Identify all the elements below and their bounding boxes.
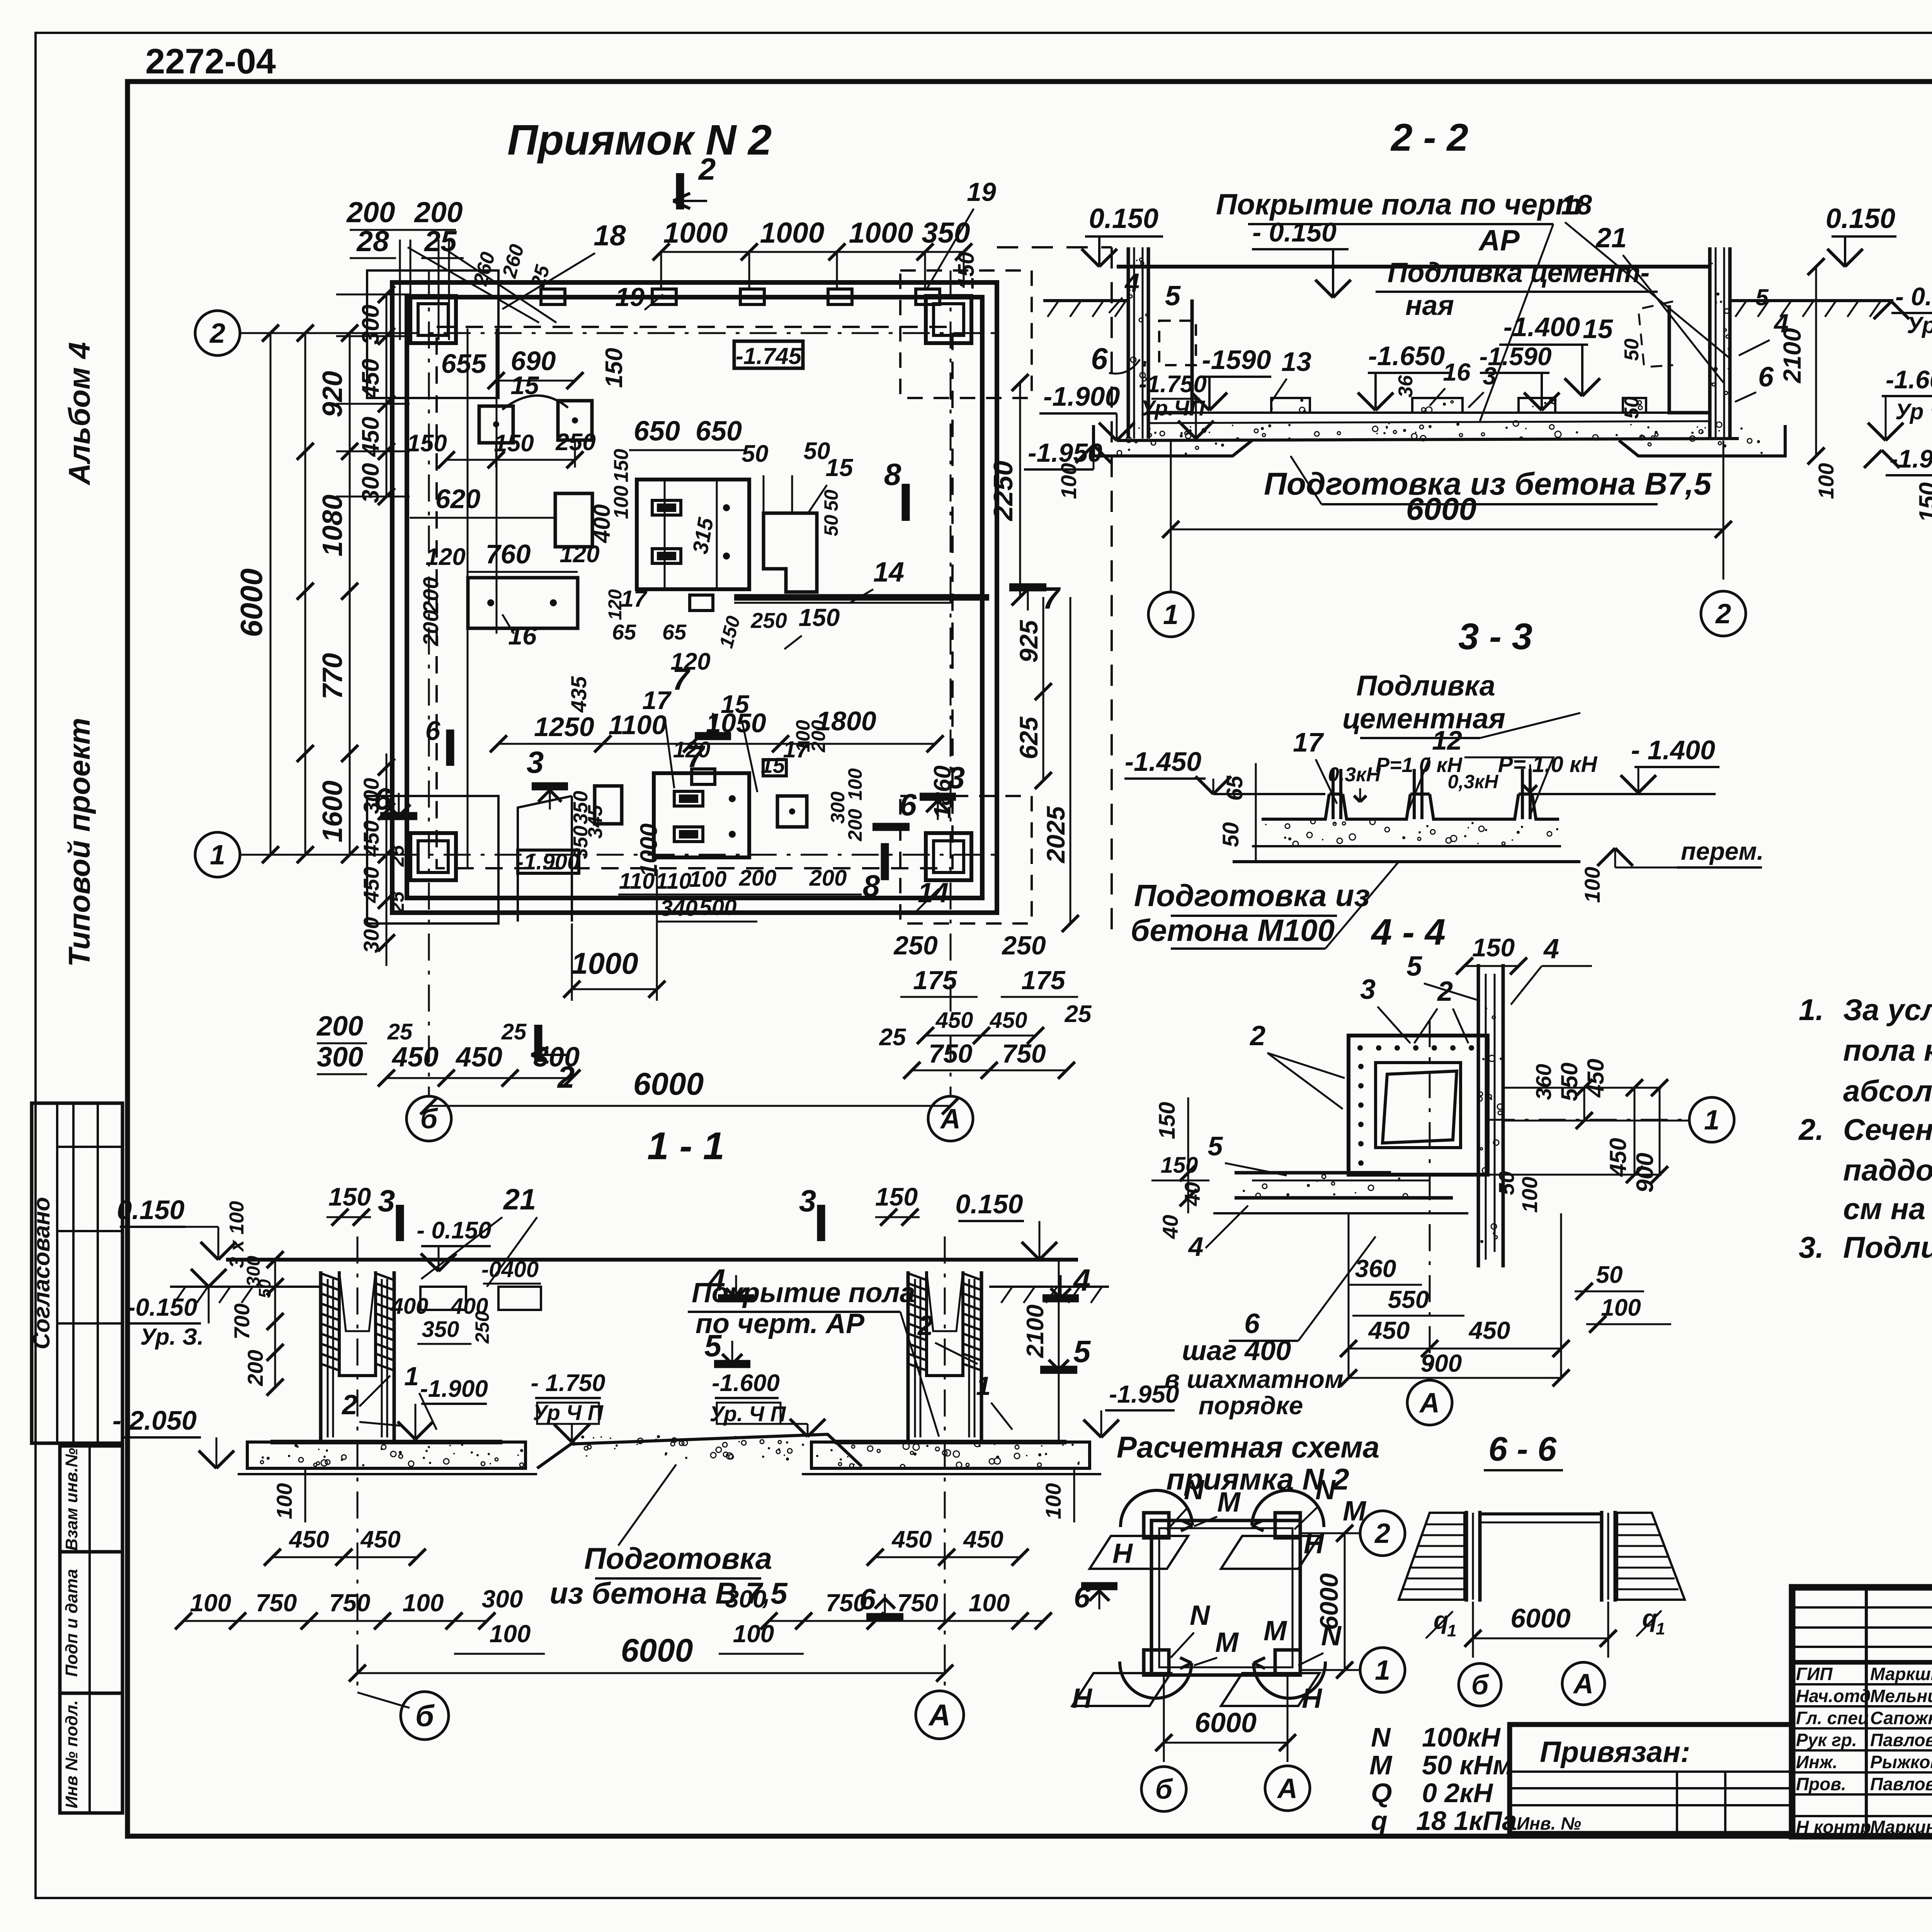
svg-text:Подливка: Подливка (1356, 670, 1495, 702)
design scheme corner nodes (1144, 1513, 1169, 1538)
svg-text:цементная: цементная (1342, 702, 1505, 735)
svg-text:АР: АР (1478, 224, 1520, 257)
svg-text:6: 6 (859, 1583, 876, 1616)
svg-text:Рук гр.: Рук гр. (1796, 1730, 1857, 1750)
svg-text:690: 690 (511, 346, 556, 376)
plan axis circle 2 (195, 311, 240, 355)
svg-text:250: 250 (893, 931, 938, 960)
svg-text:М: М (1217, 1487, 1241, 1518)
svg-text:50: 50 (1494, 1171, 1519, 1195)
svg-text:-1590: -1590 (1202, 345, 1271, 375)
plan section flags (676, 173, 684, 209)
plan corner footing outlines (367, 270, 498, 398)
design scheme section 6 flag (1081, 1582, 1117, 1590)
svg-text:перем.: перем. (1681, 837, 1764, 865)
svg-text:1: 1 (1656, 1619, 1665, 1638)
svg-text:13: 13 (1281, 347, 1311, 377)
svg-text:200: 200 (844, 809, 866, 842)
svg-text:18 1кПа: 18 1кПа (1416, 1806, 1517, 1836)
svg-text:б: б (415, 1699, 435, 1733)
svg-text:Н: Н (1072, 1683, 1093, 1714)
svg-text:0.150: 0.150 (1826, 203, 1895, 234)
svg-text:Инж.: Инж. (1796, 1752, 1838, 1772)
svg-text:300: 300 (357, 304, 384, 344)
plan corner column TR (926, 296, 971, 343)
section 4-4 wall vertical (1477, 964, 1480, 1267)
svg-text:Р= 1.0 кН: Р= 1.0 кН (1498, 752, 1598, 777)
svg-text:Ур 3.: Ур 3. (1907, 312, 1932, 338)
svg-text:2: 2 (1249, 1020, 1265, 1051)
svg-text:12: 12 (1432, 725, 1462, 755)
svg-text:150: 150 (875, 1182, 918, 1211)
svg-text:q: q (1371, 1806, 1388, 1836)
svg-text:- 1.400: - 1.400 (1631, 735, 1715, 765)
svg-text:100: 100 (1814, 463, 1838, 499)
svg-text:2: 2 (1437, 976, 1453, 1007)
svg-text:Подготовка из бетона В7,5: Подготовка из бетона В7,5 (1264, 466, 1712, 502)
section 2-2 pit bottom slab (1148, 412, 1710, 414)
svg-text:Подливка из цементного: Подливка из цементного раствора М 200 (1843, 1230, 1932, 1264)
section 4-4 corner box (1349, 1036, 1488, 1175)
plan axis lines (240, 332, 1005, 334)
svg-text:Сечения 6-6 ÷ 8- 8, специ: Сечения 6-6 ÷ 8- 8, спецификацию армиров… (1843, 1112, 1932, 1146)
svg-text:450: 450 (359, 820, 383, 857)
svg-text:А: А (928, 1698, 951, 1732)
svg-text:- 2.050: - 2.050 (112, 1405, 197, 1435)
svg-text:15: 15 (761, 753, 785, 777)
svg-text:Расчетная схема: Расчетная схема (1117, 1430, 1379, 1464)
section 2-2 axis circle 1 (1148, 592, 1193, 637)
svg-text:25: 25 (879, 1024, 906, 1051)
svg-text:М: М (1264, 1616, 1287, 1646)
svg-text:500: 500 (699, 895, 737, 920)
section 4-4 right dims (1503, 1087, 1662, 1089)
svg-text:150: 150 (1472, 933, 1515, 962)
plan bottom 6000 dimension (429, 1105, 951, 1107)
svg-text:200: 200 (346, 196, 395, 228)
svg-text:2.: 2. (1798, 1112, 1824, 1146)
svg-text:100: 100 (969, 1589, 1010, 1617)
plan corner column TL (410, 296, 456, 343)
section 2-2 bottom 6000 dim (1171, 529, 1723, 531)
svg-text:2: 2 (698, 152, 716, 186)
plan top anchor plates (541, 289, 565, 304)
svg-text:1250: 1250 (534, 712, 594, 742)
svg-text:5: 5 (1755, 284, 1769, 310)
svg-text:450: 450 (357, 417, 384, 457)
svg-text:100: 100 (1580, 867, 1604, 903)
section 1-1 ground hatch left (170, 1286, 321, 1288)
svg-text:25: 25 (387, 1019, 413, 1044)
svg-text:36: 36 (1395, 375, 1417, 398)
svg-text:1000: 1000 (849, 216, 913, 249)
svg-text:450: 450 (1583, 1059, 1609, 1098)
svg-text:25: 25 (386, 845, 408, 867)
svg-text:100: 100 (190, 1589, 231, 1617)
svg-text:2: 2 (1374, 1518, 1390, 1549)
svg-text:400: 400 (391, 1294, 429, 1319)
svg-text:Покрытие пола по черт: Покрытие пола по черт (1216, 188, 1582, 221)
section 2-2 ground lines (1043, 299, 1128, 302)
svg-text:200: 200 (413, 196, 463, 228)
svg-text:50: 50 (1621, 338, 1643, 361)
plan lower cluster G (654, 773, 749, 857)
svg-text:100: 100 (689, 867, 727, 892)
svg-text:Маркин: Маркин (1870, 1817, 1932, 1837)
svg-text:2: 2 (341, 1389, 357, 1420)
svg-text:Согласовано: Согласовано (29, 1197, 54, 1349)
plan pad B (555, 493, 592, 547)
plan equipment pads group A (479, 406, 513, 443)
svg-text:За условную отметку 0.000: За условную отметку 0.000 принят уровень (1843, 993, 1932, 1027)
svg-text:100: 100 (610, 486, 633, 519)
design scheme axis circles right (1300, 1532, 1360, 1534)
svg-text:100: 100 (403, 1589, 444, 1617)
svg-text:Альбом 4: Альбом 4 (62, 342, 96, 486)
svg-text:2: 2 (209, 318, 225, 349)
svg-text:750: 750 (1002, 1039, 1046, 1068)
svg-text:450: 450 (288, 1526, 329, 1553)
svg-text:50: 50 (742, 440, 769, 467)
svg-text:-1.950: -1.950 (1109, 1380, 1179, 1408)
svg-text:150: 150 (610, 449, 633, 483)
plan pad C (long with two anchors) (468, 578, 578, 628)
svg-text:6: 6 (1091, 342, 1108, 376)
svg-text:150: 150 (1161, 1153, 1198, 1178)
svg-text:1080: 1080 (317, 495, 348, 556)
svg-text:Подготовка из: Подготовка из (1134, 878, 1370, 913)
svg-text:1000: 1000 (760, 216, 825, 249)
section 4-4 bottom wall strip (1235, 1171, 1391, 1175)
plan -1.745 boxed elevation (734, 341, 803, 368)
svg-text:300: 300 (725, 1585, 767, 1613)
svg-text:Взам инв.№: Взам инв.№ (62, 1448, 81, 1551)
svg-text:3.: 3. (1799, 1230, 1824, 1264)
svg-text:Пров.: Пров. (1796, 1774, 1846, 1794)
svg-text:150: 150 (601, 348, 628, 388)
title block (1792, 1587, 1932, 1836)
section 1-1 6000 dim (357, 1672, 945, 1674)
inventory margin table (60, 1446, 122, 1813)
section 6-6 right soil wedge (1617, 1513, 1685, 1600)
svg-text:925: 925 (1014, 620, 1043, 663)
svg-text:450: 450 (357, 359, 384, 399)
svg-text:3: 3 (1483, 362, 1497, 390)
svg-text:-1.600: -1.600 (1886, 365, 1932, 394)
svg-text:N: N (1371, 1722, 1391, 1752)
svg-text:100кН: 100кН (1422, 1722, 1501, 1752)
svg-text:150: 150 (328, 1182, 371, 1211)
svg-text:450: 450 (1605, 1138, 1631, 1177)
svg-text:0.150: 0.150 (1089, 203, 1158, 234)
svg-text:см на листе 15.: см на листе 15. (1843, 1192, 1932, 1226)
section 2-2 right wall (1708, 247, 1712, 439)
svg-text:1050: 1050 (706, 708, 766, 738)
plan left chain 920/1080/770 (349, 333, 351, 753)
svg-text:1.: 1. (1799, 993, 1824, 1027)
svg-text:450: 450 (963, 1526, 1003, 1553)
svg-text:750: 750 (256, 1589, 297, 1617)
svg-text:6000: 6000 (633, 1066, 704, 1102)
svg-text:6: 6 (1244, 1308, 1260, 1339)
svg-text:450: 450 (359, 867, 383, 903)
section 1-1 axis circles (357, 1236, 359, 1692)
svg-text:16: 16 (508, 621, 537, 650)
svg-text:М: М (1369, 1750, 1393, 1780)
svg-text:100: 100 (1517, 1177, 1542, 1213)
svg-text:6000: 6000 (234, 568, 269, 637)
svg-text:Н: Н (1112, 1538, 1133, 1569)
attachment box Привязан (1510, 1725, 1792, 1833)
svg-text:150: 150 (1915, 482, 1932, 522)
section 1-1 middle slab (537, 1434, 862, 1468)
svg-text:100: 100 (490, 1620, 531, 1648)
svg-text:14: 14 (873, 557, 904, 588)
svg-text:16: 16 (1443, 358, 1471, 386)
svg-text:25: 25 (386, 891, 408, 913)
svg-text:6000: 6000 (1315, 1573, 1343, 1630)
svg-text:150: 150 (954, 252, 979, 289)
svg-text:450: 450 (891, 1526, 932, 1553)
svg-text:5: 5 (1208, 1131, 1223, 1161)
svg-text:21: 21 (1595, 223, 1627, 253)
plan left lower chain (349, 753, 351, 855)
svg-text:18: 18 (594, 219, 626, 252)
svg-text:Подливка цемент-: Подливка цемент- (1388, 257, 1650, 288)
section 2-2 left footing (1094, 425, 1252, 456)
svg-text:- 0.150: - 0.150 (417, 1217, 491, 1244)
svg-text:Приямок N 2: Приямок N 2 (507, 116, 772, 164)
svg-text:4: 4 (707, 1263, 726, 1297)
design scheme moment arcs (1121, 1490, 1192, 1527)
section 1-1 left pedestal (321, 1271, 394, 1441)
svg-text:-1.900: -1.900 (420, 1376, 488, 1402)
svg-text:2250: 2250 (988, 461, 1018, 522)
svg-text:300: 300 (482, 1585, 523, 1613)
svg-text:А: А (1277, 1773, 1298, 1804)
svg-text:360: 360 (1531, 1064, 1556, 1100)
svg-text:21: 21 (503, 1183, 536, 1216)
svg-text:4 - 4: 4 - 4 (1371, 912, 1446, 953)
svg-text:2: 2 (1715, 599, 1731, 629)
svg-text:Q: Q (1371, 1778, 1392, 1808)
plan beam 14 (734, 594, 989, 601)
svg-text:14: 14 (918, 878, 949, 908)
svg-text:120: 120 (673, 737, 711, 762)
svg-text:50: 50 (820, 490, 842, 511)
svg-text:пола компрессорной , что: пола компрессорной , что соответствует (1843, 1033, 1932, 1067)
plan axis circle Б (406, 1096, 451, 1141)
section 1-1 section flag 6 (866, 1613, 903, 1621)
svg-text:шаг 400: шаг 400 (1182, 1335, 1291, 1366)
svg-text:2100: 2100 (1778, 328, 1806, 383)
plan -1.900 boxed mark (518, 850, 579, 873)
svg-text:120: 120 (605, 589, 626, 620)
svg-text:150: 150 (1155, 1102, 1180, 1139)
svg-text:250: 250 (750, 608, 787, 633)
plan pads H (777, 796, 807, 827)
section 6-6 left soil wedge (1399, 1513, 1464, 1600)
svg-text:б: б (1471, 1670, 1490, 1701)
svg-text:-1.600: -1.600 (712, 1370, 780, 1396)
svg-text:450: 450 (1368, 1316, 1410, 1344)
svg-text:2 - 2: 2 - 2 (1390, 116, 1468, 159)
svg-text:-1.745: -1.745 (736, 343, 802, 369)
plan top dimension chain 1000x3+350 (661, 251, 964, 253)
svg-text:3: 3 (527, 745, 544, 779)
svg-text:50: 50 (1596, 1262, 1623, 1288)
svg-text:175: 175 (1021, 966, 1066, 995)
svg-text:150: 150 (407, 430, 447, 457)
svg-text:1: 1 (210, 840, 225, 871)
svg-text:6: 6 (425, 716, 441, 746)
svg-text:4: 4 (1543, 934, 1559, 964)
plan corner column BR (926, 833, 971, 880)
section 2-2 left wall (1127, 247, 1130, 439)
svg-text:7: 7 (672, 662, 691, 696)
section 4-4 axis A (1429, 1020, 1431, 1380)
section 1-1 left footing (247, 1442, 526, 1468)
svg-text:Гл. спец: Гл. спец (1796, 1708, 1869, 1728)
svg-text:750: 750 (329, 1589, 371, 1617)
svg-text:Ур. З.: Ур. З. (140, 1324, 204, 1350)
svg-text:50: 50 (1218, 822, 1243, 847)
svg-text:3: 3 (378, 1184, 395, 1218)
plan central foundation D (637, 480, 749, 589)
section 2-2 floor line (1117, 265, 1710, 269)
svg-text:1: 1 (1704, 1105, 1719, 1136)
svg-text:Подп и дата: Подп и дата (62, 1569, 81, 1677)
svg-text:120: 120 (425, 544, 465, 570)
section 4-4 axis 1 (1488, 1119, 1689, 1121)
svg-text:360: 360 (1355, 1255, 1396, 1282)
svg-text:1: 1 (976, 1371, 991, 1401)
section 3-3 posts (1332, 769, 1335, 819)
svg-text:200: 200 (808, 720, 829, 753)
svg-text:7: 7 (1043, 581, 1061, 615)
svg-text:5: 5 (1406, 951, 1422, 982)
section 1-1 right footing (811, 1442, 1090, 1468)
svg-text:1: 1 (1163, 599, 1179, 630)
svg-text:Ур Ч.П.: Ур Ч.П. (1895, 399, 1932, 424)
svg-text:8: 8 (884, 457, 901, 492)
svg-text:Инв. №: Инв. № (1517, 1813, 1581, 1833)
svg-text:175: 175 (913, 966, 957, 995)
svg-text:- 0.150: - 0.150 (1895, 282, 1932, 311)
svg-text:345: 345 (584, 805, 607, 839)
svg-text:1600: 1600 (317, 781, 348, 842)
plan pit wall outline (392, 282, 997, 913)
approval table Согласовано (32, 1103, 122, 1443)
svg-text:40: 40 (1158, 1215, 1182, 1239)
svg-text:3 - 3: 3 - 3 (1458, 616, 1532, 657)
svg-text:Маркштедер: Маркштедер (1870, 1664, 1932, 1684)
section 2-2 inner left wall profile (1148, 299, 1192, 413)
svg-text:19: 19 (615, 282, 645, 312)
svg-text:450: 450 (360, 1526, 400, 1553)
svg-text:250: 250 (471, 1311, 493, 1344)
svg-text:4: 4 (1124, 268, 1139, 298)
svg-text:в шахматном: в шахматном (1164, 1365, 1344, 1393)
svg-text:200: 200 (739, 866, 777, 891)
svg-text:6000: 6000 (1510, 1603, 1571, 1633)
svg-text:110: 110 (619, 869, 655, 894)
svg-text:17: 17 (1293, 727, 1324, 757)
svg-text:350: 350 (422, 1317, 459, 1342)
section 1-1 ground hatch right (989, 1286, 1109, 1288)
plan wall step lines left (467, 328, 469, 867)
plan right dim chain (1019, 383, 1021, 597)
svg-text:6000: 6000 (1195, 1708, 1257, 1738)
svg-text:450: 450 (455, 1042, 502, 1073)
svg-text:6: 6 (900, 787, 917, 822)
svg-text:А: А (1419, 1388, 1440, 1418)
svg-text:25: 25 (1065, 1001, 1092, 1027)
svg-text:- 1.750: - 1.750 (531, 1370, 605, 1396)
svg-text:Ур. Ч П: Ур. Ч П (709, 1401, 786, 1426)
svg-text:2272-04: 2272-04 (145, 42, 276, 81)
svg-text:200: 200 (243, 1350, 267, 1386)
svg-text:Сапожникова: Сапожникова (1870, 1708, 1932, 1728)
svg-text:100: 100 (1041, 1483, 1065, 1519)
svg-text:-0400: -0400 (481, 1257, 539, 1282)
svg-text:750: 750 (929, 1039, 973, 1068)
plan corner column BL (410, 833, 456, 880)
svg-text:3: 3 (799, 1184, 816, 1218)
svg-text:1: 1 (404, 1362, 419, 1391)
svg-text:50: 50 (1621, 396, 1643, 419)
section 6-6 lid (1480, 1512, 1602, 1515)
svg-text:Типовой проект: Типовой проект (62, 718, 96, 967)
svg-text:25: 25 (423, 225, 457, 257)
svg-text:5: 5 (704, 1328, 722, 1363)
svg-text:100: 100 (1056, 463, 1081, 499)
svg-text:0,3кН: 0,3кН (1448, 771, 1499, 793)
svg-text:435: 435 (566, 676, 591, 713)
svg-text:6: 6 (1074, 1581, 1090, 1614)
svg-text:770: 770 (317, 653, 348, 699)
svg-text:6 - 6: 6 - 6 (1488, 1430, 1557, 1468)
svg-text:150: 150 (494, 430, 534, 457)
svg-text:2025: 2025 (1041, 806, 1070, 864)
design scheme H parallelograms (1090, 1536, 1188, 1569)
svg-text:3: 3 (1360, 974, 1376, 1005)
svg-text:65: 65 (612, 620, 636, 644)
svg-text:750: 750 (897, 1589, 939, 1617)
svg-text:-1.400: -1.400 (1503, 312, 1580, 342)
svg-text:300: 300 (357, 463, 384, 503)
svg-text:28: 28 (356, 225, 389, 257)
svg-text:Н: Н (1302, 1683, 1323, 1714)
svg-text:N: N (1184, 1475, 1205, 1505)
svg-text:1000: 1000 (663, 216, 728, 249)
svg-text:920: 920 (317, 371, 348, 417)
svg-text:б: б (420, 1104, 439, 1134)
svg-text:q: q (1434, 1606, 1449, 1634)
svg-text:110: 110 (656, 869, 691, 894)
svg-text:200: 200 (316, 1011, 363, 1042)
svg-text:Н контр: Н контр (1796, 1817, 1871, 1837)
svg-text:450: 450 (1468, 1316, 1510, 1344)
section 6-6 bottom dim (1472, 1602, 1474, 1658)
svg-text:250: 250 (1001, 931, 1046, 960)
plan pad E (764, 513, 817, 592)
svg-text:Павлова: Павлова (1870, 1730, 1932, 1750)
svg-text:0,3кН: 0,3кН (1328, 764, 1381, 786)
svg-text:340: 340 (660, 896, 698, 921)
svg-text:8: 8 (863, 869, 880, 903)
svg-text:1100: 1100 (609, 710, 667, 740)
